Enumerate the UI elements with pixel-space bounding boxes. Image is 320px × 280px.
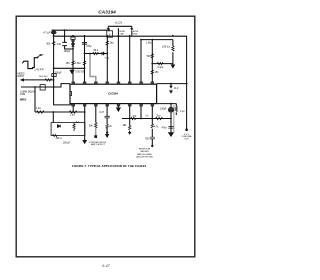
ground G3 <box>82 140 87 144</box>
terminal square pin3 bottom <box>94 135 97 138</box>
wire pin5 bottom stub <box>117 106 119 108</box>
delay line box <box>40 85 45 90</box>
wire y118.5 <box>122 118 171 120</box>
resistor R11 330 on box bottom <box>53 134 57 136</box>
svg-text:300: 300 <box>46 43 51 46</box>
svg-text:INPUT: INPUT <box>17 76 24 78</box>
IC pins top <box>72 82 154 85</box>
svg-text:47kΩ: 47kΩ <box>162 127 168 130</box>
gray wire right bottom <box>173 105 175 132</box>
resistor R14 pin6 bottom <box>129 126 131 130</box>
svg-text:UNLESS NOTED: UNLESS NOTED <box>136 156 153 158</box>
waveform arrow <box>37 55 42 58</box>
box +V <box>107 31 113 37</box>
wire pin2 bottom drop <box>84 105 86 140</box>
resistor R2 56.2 on y53.5 <box>93 52 99 54</box>
svg-text:330 Ω: 330 Ω <box>56 137 62 140</box>
capacitor C2 on x64.6 <box>62 42 67 45</box>
resistor R15 on y118.5 right <box>156 117 163 119</box>
wire pin2 riser <box>84 36 86 82</box>
svg-text:+11.2V: +11.2V <box>115 21 123 24</box>
resistor R3 2k on pin4 riser <box>106 41 108 45</box>
wire pin3 bottom drop <box>95 106 97 123</box>
wire mini rail top <box>108 25 132 27</box>
wire pin7 bottom drop <box>140 106 142 119</box>
ground G2 arrow <box>171 65 176 69</box>
resistor R7 1k on input wire <box>45 79 52 81</box>
svg-text:4.7 µF: 4.7 µF <box>43 32 51 35</box>
resistor R12 39k <box>95 123 97 128</box>
svg-text:56.2: 56.2 <box>93 49 98 52</box>
diode D2 pin1 riser <box>72 44 75 47</box>
svg-text:470µ: 470µ <box>86 46 92 48</box>
wire +V box to rail B <box>108 28 110 30</box>
wire pin1 riser <box>72 36 74 82</box>
resistor R17 150 on pin1 riser <box>72 61 74 65</box>
junction dots <box>34 29 188 131</box>
svg-text:1 kΩ: 1 kΩ <box>180 110 185 113</box>
svg-text:NRS: NRS <box>20 98 26 102</box>
arrow under pin6 resistor <box>128 132 131 135</box>
svg-text:AMP DETECT: AMP DETECT <box>91 143 106 146</box>
arrowhead left mini rail <box>107 28 110 31</box>
wire pin4 riser <box>106 36 108 82</box>
wire pin8 bottom drop <box>151 106 153 124</box>
arrowhead right mini rail <box>130 28 133 31</box>
transistor box Q1 on pin1 riser <box>71 37 75 39</box>
resistor R13 on y118.5 <box>131 117 136 119</box>
capacitor C4 0.47 pin4 bottom <box>105 116 110 118</box>
svg-text:100µF: 100µF <box>160 108 167 110</box>
resistor R5 100k vertical <box>172 46 174 51</box>
svg-text:0.5µ: 0.5µ <box>105 58 110 60</box>
svg-text:3.9k: 3.9k <box>56 43 61 46</box>
gray wire pin3 top L <box>90 54 96 82</box>
capacitor C5 electrolytic circle <box>168 107 173 112</box>
resistor R4 500 on pin8 riser <box>151 54 153 58</box>
ground G1 under y68.3 wire <box>70 69 75 74</box>
capacitor C1 4.7uF electrolytic ellipse <box>51 31 56 34</box>
svg-text:1.5kΩ: 1.5kΩ <box>75 62 81 65</box>
wire cap branch x64.6 <box>65 30 73 49</box>
resistor R19 150 on pin8 riser low <box>151 70 153 74</box>
svg-text:100 µF: 100 µF <box>63 143 71 145</box>
wire input line y79.9 <box>23 79 53 81</box>
svg-text:1.5kΩ: 1.5kΩ <box>146 41 152 44</box>
resistor R20 2k pin4 bottom <box>106 124 108 128</box>
capacitor C7 4.7u on pin2 riser <box>82 43 87 45</box>
resistor R10 in box <box>73 124 75 129</box>
svg-text:GND: GND <box>133 34 138 36</box>
wire luma line y87 <box>21 84 70 87</box>
svg-text:CA3194: CA3194 <box>98 10 116 16</box>
wire box drop x53.3 <box>52 112 54 123</box>
svg-text:FIGURE 7. TYPICAL APPLICATION: FIGURE 7. TYPICAL APPLICATION OF THE CA3… <box>72 164 146 168</box>
diode D4 series on y53.5 <box>101 52 104 55</box>
resistor R8 1k on y112 <box>37 111 45 114</box>
svg-text:100µF: 100µF <box>64 51 71 53</box>
wire pin6 riser <box>129 36 131 82</box>
svg-text:1 kΩ: 1 kΩ <box>36 107 41 110</box>
input arrow left <box>20 78 24 81</box>
svg-text:2kΩ: 2kΩ <box>156 114 160 117</box>
svg-text:V: V <box>109 32 111 36</box>
rail B supply <box>54 35 187 37</box>
svg-text:2kΩ: 2kΩ <box>110 42 115 45</box>
ground G4 under pin5 <box>116 108 121 113</box>
resistor R6 on branch y63.6 <box>157 62 163 64</box>
wire y68.3 <box>54 67 85 69</box>
svg-text:6-47: 6-47 <box>102 264 110 268</box>
svg-text:CA3194: CA3194 <box>108 92 118 96</box>
wire right edge drop <box>186 36 188 130</box>
resistor R18 1.5k on pin2 riser <box>83 61 85 65</box>
wire BLNK GND stub <box>131 31 133 36</box>
svg-text:4.5M: 4.5M <box>39 55 44 57</box>
svg-text:VALUES: VALUES <box>140 150 149 153</box>
resistor R21 1k right stub <box>175 106 177 111</box>
svg-text:CAP: CAP <box>120 33 125 36</box>
svg-text:0.1µF: 0.1µF <box>157 67 164 69</box>
ground G5 under x171 <box>168 132 174 137</box>
wire IC top right 11.2 line <box>157 83 187 85</box>
svg-text:OUT: OUT <box>184 139 189 141</box>
rail A supply <box>52 29 108 31</box>
page border frame <box>16 16 195 257</box>
resistor R1 300 on x53.6 <box>52 42 55 46</box>
sub box lower-left <box>51 123 85 136</box>
wire input vertical x53.6 <box>54 30 74 105</box>
wire branch y63.6 <box>152 63 173 65</box>
wire 100k branch <box>172 40 174 65</box>
wire y53.5 <box>85 53 108 55</box>
diode D1 pin1 riser <box>72 41 75 44</box>
stub 11.2 arrows <box>169 86 172 89</box>
ground G6 pin4 bottom <box>106 132 108 134</box>
IC U1 CA3194 body <box>70 84 157 103</box>
IC pins bottom <box>72 104 154 107</box>
wire left L vertical x35 <box>34 87 36 112</box>
wire pin8 riser <box>151 40 153 82</box>
wire pin6 bottom drop <box>129 106 131 126</box>
test point box cap <box>52 74 56 77</box>
svg-text:ARE IN OHMS: ARE IN OHMS <box>137 153 152 156</box>
wire pin4 bottom drop <box>106 106 108 116</box>
svg-text:1.4V P-P: 1.4V P-P <box>34 69 44 71</box>
gray wire pin3 bottom <box>95 127 97 135</box>
svg-text:LINE: LINE <box>20 94 26 96</box>
svg-text:11.2: 11.2 <box>174 88 179 90</box>
svg-text:0.47: 0.47 <box>100 112 105 114</box>
wire pin1 bottom drop <box>72 105 74 112</box>
wire bottom-left y112 <box>35 111 85 113</box>
wire pin5 riser <box>117 28 119 82</box>
wire IC bottom right <box>157 103 177 105</box>
video waveform icon <box>22 58 38 69</box>
svg-text:1 kΩ: 1 kΩ <box>70 113 75 116</box>
IC notch <box>70 91 72 95</box>
capacitor C6 on x171 <box>168 127 173 129</box>
resistor R9 1k on y112 right <box>69 111 77 114</box>
resistor R16 4.7k pin8 bottom <box>151 124 153 128</box>
diode D5 in box <box>57 124 60 127</box>
svg-text:0.05 750: 0.05 750 <box>75 72 85 74</box>
svg-text:100 kΩ: 100 kΩ <box>162 46 170 49</box>
wire pin7 riser <box>141 40 173 82</box>
wire 1k right stub <box>175 104 177 107</box>
